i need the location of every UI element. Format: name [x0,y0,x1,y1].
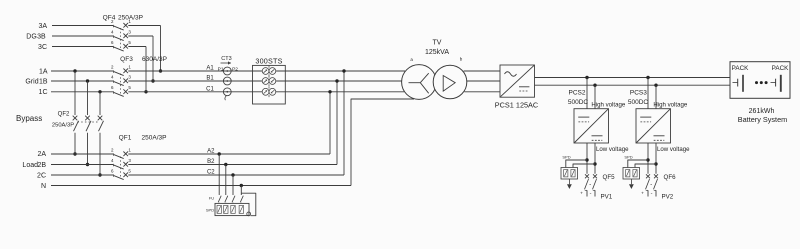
wire 3B [52,35,153,37]
node 2A label [37,151,46,158]
svg-text:PCS3: PCS3 [630,90,647,97]
breaker QF3 pole2 pins 4-3 [111,74,131,85]
wire xfmr-PCS1 B [467,80,500,82]
wire 3B drop to 1B [151,36,154,83]
label - PCS2 [590,190,592,196]
label + PCS2 [580,191,583,196]
label + PCS3 [641,191,644,196]
svg-text:PACK: PACK [772,65,789,72]
node B2 label [207,159,215,165]
svg-text:2A: 2A [37,151,46,158]
breaker QF1 link [120,157,122,178]
label P1 [218,66,224,72]
converter PCS3 box [636,109,671,143]
breaker QF4 pole2 pins 4-3 [111,29,131,40]
wire 3A [52,25,161,27]
node 3C label [38,44,47,51]
svg-text:250A/3P: 250A/3P [52,123,74,129]
battery 261kWh label [749,108,775,115]
node 3A label [38,23,47,30]
bypass QF2 pole1 [73,69,79,155]
breaker QF2 link [78,121,99,123]
STS label [255,56,282,65]
breaker QF1 pole2 pins 4-3 [111,158,131,169]
svg-text:-: - [651,190,653,196]
svg-text:B1: B1 [206,76,214,82]
svg-text:+: + [641,191,644,196]
svg-text:High voltage: High voltage [653,102,687,109]
svg-text:500DC: 500DC [568,99,589,106]
node PV1 label [601,194,613,201]
node PV2 label [662,194,674,201]
wire 1A [51,70,405,72]
converter PCS3 labels [628,90,690,153]
svg-text:SPD: SPD [562,154,570,159]
svg-text:QF3: QF3 [120,56,133,63]
breaker QF4 link [120,28,122,49]
breaker QF6 label [664,174,677,181]
breaker QF6 pole at 648 [646,174,651,196]
bypass label [16,114,42,123]
wire DC+ bus [535,77,731,79]
breaker QF5 pole at 587 [585,174,590,196]
converter PCS2 taps [585,76,596,109]
wire A2 riser [328,90,331,154]
load SPD drop 4 [240,184,244,204]
converter PCS3 taps [646,76,657,109]
svg-text:QF4: QF4 [103,15,116,22]
bypass QF2 pole3 [98,90,104,177]
svg-text:FU: FU [209,196,214,201]
CT coil phase B [223,77,231,85]
svg-text:PCS1 125AC: PCS1 125AC [495,100,538,109]
CT secondary tail [225,96,227,101]
wire xfmr-PCS1 A [464,70,500,72]
converter PCS1 box [500,65,535,97]
svg-text:High voltage: High voltage [591,102,625,109]
converter PCS1 label [495,100,538,109]
transformer secondary winding [433,65,467,99]
breaker QF4 pole3 pins 6-5 [111,40,131,51]
breaker QF6 pole at 656 [654,174,659,196]
wire 2B [51,164,337,166]
breaker QF1 label [119,134,167,141]
wire 3A drop to 1A [159,26,162,73]
label SPD tiny [206,208,214,213]
STS thyristor pair phase C [262,87,276,98]
wire 1C [51,91,404,93]
svg-text:PCS2: PCS2 [569,90,586,97]
svg-text:CT3: CT3 [221,56,231,62]
svg-text:Low voltage: Low voltage [596,146,629,153]
breaker QF5 label [603,174,616,181]
wire DC- bus [535,84,731,86]
svg-text:630A/3P: 630A/3P [142,56,167,63]
svg-text:SPD: SPD [624,154,632,159]
breaker QF3 link [120,74,122,95]
svg-text:A1: A1 [206,66,214,72]
svg-text:3B: 3B [37,33,46,40]
svg-text:300STS: 300STS [255,56,282,65]
PCS2 pole wires [587,143,595,174]
load SPD drop 2 [224,163,228,204]
svg-text:500DC: 500DC [628,99,649,106]
svg-text:C2: C2 [207,170,215,176]
svg-text:P1: P1 [218,66,224,72]
svg-text:PV1: PV1 [601,194,613,201]
svg-text:3C: 3C [38,44,47,51]
breaker QF2 label [52,111,74,128]
wire 2C [51,174,344,176]
transformer mark a [410,57,413,62]
svg-text:2B: 2B [37,162,46,169]
svg-text:Bypass: Bypass [16,114,42,123]
svg-text:QF1: QF1 [119,134,132,141]
svg-text:PACK: PACK [732,65,749,72]
svg-text:2C: 2C [37,172,46,179]
battery PACK label left [732,65,749,72]
svg-text:A2: A2 [207,149,215,155]
svg-text:Grid: Grid [25,78,38,85]
svg-text:1A: 1A [39,68,48,75]
svg-text:PV2: PV2 [662,194,674,201]
surge arrester SPD PCS3 [623,154,658,189]
breaker QF1 pole1 pins 2-1 [111,147,131,158]
svg-text:N: N [41,183,46,190]
breaker QF3 pole3 pins 6-5 [111,85,131,96]
svg-text:3A: 3A [38,23,47,30]
svg-text:1B: 1B [39,78,48,85]
wire N riser to transformer [351,99,414,186]
label FU tiny [209,196,214,201]
transformer TV label [425,39,449,56]
breaker QF1 pole3 pins 6-5 [111,168,131,179]
svg-text:250A/3P: 250A/3P [142,134,167,141]
transformer mark b [460,56,463,61]
svg-text:TV: TV [433,39,442,46]
node C2 label [207,170,215,176]
wire C2 riser [342,69,345,175]
svg-text:P2: P2 [232,66,238,72]
wire B2 riser [335,79,338,164]
svg-text:125kVA: 125kVA [425,49,449,56]
load SPD arresters [217,205,244,213]
svg-text:+: + [580,191,583,196]
node Load 2B label [22,162,46,169]
breaker QF5 pole at 595 [593,174,598,196]
svg-text:-: - [590,190,592,196]
label - PCS3 [651,190,653,196]
wire N [51,185,351,187]
svg-text:QF5: QF5 [603,174,616,181]
breaker QF3 label [120,56,167,63]
svg-text:SPD: SPD [206,208,214,213]
node C1 label [206,86,214,92]
wire N wrap [241,193,256,216]
svg-text:QF6: QF6 [664,174,677,181]
svg-text:Battery System: Battery System [738,115,787,124]
node 2C label [37,172,46,179]
transformer primary winding [402,65,437,100]
battery PACK label right [772,65,789,72]
load SPD box [215,203,249,215]
PCS3 pole wires [648,143,656,174]
node Grid 1B label [25,78,47,85]
svg-text:C1: C1 [206,86,214,92]
load SPD drop 1 [218,152,222,203]
breaker QF3 pole1 pins 2-1 [111,64,131,75]
wire 1B [51,80,402,82]
svg-text:B2: B2 [207,159,215,165]
CT3 label+arrow [221,56,232,65]
node B1 label [206,76,214,82]
wire xfmr-PCS1 C [464,91,500,93]
node 1A label [39,68,48,75]
STS thyristor pair phase A [262,66,276,77]
node DG 3B label [26,33,46,40]
battery cell left [733,75,744,92]
battery cell right [771,75,781,92]
svg-text:Low voltage: Low voltage [657,146,690,153]
svg-text:QF2: QF2 [58,111,70,117]
node A1 label [206,66,214,72]
svg-text:1C: 1C [39,89,48,96]
battery system box [730,62,790,99]
load SPD drop 3 [231,173,235,203]
node N label [41,183,46,190]
bypass QF2 pole2 [85,79,91,166]
converter PCS2 box [574,109,609,143]
surge arrester SPD PCS2 [561,154,597,189]
converter PCS2 labels [568,90,629,153]
wire 3C drop to 1C [144,47,147,94]
STS thyristor pair phase B [262,76,276,87]
svg-text:Load: Load [22,162,38,169]
CT coil phase C [223,88,231,96]
breaker QF6 link [651,184,653,186]
wire 3C [52,46,146,48]
breaker QF4 pole1 pins 2-1 [111,19,131,30]
battery system label [738,115,787,124]
breaker QF4 label [103,15,143,22]
node 1C label [39,89,48,96]
battery dots [755,81,768,84]
wire 2A [51,153,330,155]
breaker QF5 link [590,184,592,186]
CT coil phase A [223,67,231,75]
svg-text:DG: DG [26,33,37,40]
node A2 label [207,149,215,155]
label P2 [232,66,238,72]
STS box 300STS [253,65,286,104]
